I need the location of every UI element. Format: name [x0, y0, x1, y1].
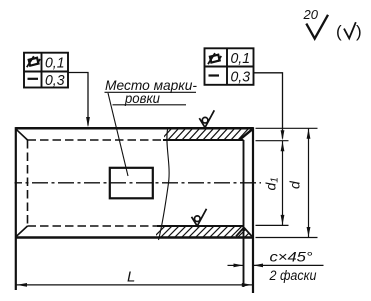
arrow: right frame leader down — [281, 130, 285, 140]
arrow: left frame leader down — [86, 117, 90, 127]
tolerance frame, right — [205, 48, 254, 85]
leader from note text to marking rectangle — [108, 93, 128, 176]
arrow: c left (pointing right) — [234, 264, 244, 268]
part outline: outer top line — [16, 127, 254, 130]
arrow: d top — [307, 129, 311, 139]
extension line, outer bottom (d) — [256, 237, 318, 239]
svg-text:0,3: 0,3 — [231, 69, 251, 86]
hatching, bottom wall — [154, 225, 257, 237]
surface finish symbol on bore bottom — [192, 209, 207, 226]
arrow: d1 top — [281, 141, 285, 151]
svg-text:0,1: 0,1 — [45, 55, 65, 72]
arrow: L left — [17, 283, 28, 287]
bore hidden dashed line, top — [28, 139, 165, 141]
tolerance symbol (straightness dash), right frame bottom cell — [209, 74, 220, 76]
svg-text:0,1: 0,1 — [231, 50, 251, 67]
extension line, bore top (d1) — [256, 140, 289, 142]
roughness in parentheses mark — [344, 22, 356, 38]
tolerance symbol (runout), left frame top cell — [27, 56, 40, 67]
part outline: outer bottom line — [16, 236, 254, 239]
dimension line L — [16, 284, 253, 286]
arrow: d1 bottom — [281, 215, 285, 225]
svg-text:L: L — [127, 269, 135, 286]
part outline: left end face (extends down as L extension line) — [15, 127, 17, 290]
note underline, line 1 — [105, 91, 197, 93]
bore line solid, bottom (sectioned part) — [157, 225, 244, 227]
dimension line d — [308, 128, 310, 237]
surface finish symbol on top wall — [199, 110, 214, 127]
right chamfer diagonal, top — [240, 130, 253, 140]
tolerance symbol (straightness dash), left frame bottom cell — [28, 78, 39, 80]
leader from left frame to part top face — [68, 73, 88, 126]
bore hidden dashed line, bottom — [28, 225, 159, 227]
marking place rectangle — [110, 168, 153, 199]
extension line, bore bottom (d1) — [256, 224, 289, 226]
svg-text:): ) — [356, 22, 362, 41]
svg-text:d: d — [287, 180, 303, 189]
arrow: c right (pointing left) — [253, 264, 263, 268]
svg-text:2 фаски: 2 фаски — [269, 268, 317, 283]
tolerance symbol (runout), right frame top cell — [208, 53, 221, 64]
extension line, outer top (d) — [256, 127, 318, 129]
hatch end stroke, bottom right — [236, 228, 244, 237]
svg-text:(: ( — [336, 22, 342, 41]
break (wavy) line — [159, 130, 170, 241]
bore line solid, top (sectioned part) — [163, 139, 244, 141]
chamfer dimension leader (c), right line / fraction bar — [253, 264, 324, 266]
note underline, line 2 — [113, 104, 187, 106]
hidden chamfer edge vertical, left end — [27, 140, 29, 226]
tolerance frame, left — [24, 53, 68, 88]
hatching, top wall — [160, 128, 256, 141]
arrowheads — [17, 117, 311, 287]
svg-text:0,3: 0,3 — [45, 72, 65, 89]
left chamfer diagonal, top — [16, 129, 28, 140]
chamfer dimension leader (c), left arrow line — [228, 264, 244, 266]
arrow: L right — [242, 283, 253, 287]
svg-text:c×45°: c×45° — [270, 249, 313, 265]
left chamfer diagonal, bottom — [16, 226, 28, 237]
svg-text:20: 20 — [303, 7, 319, 22]
roughness mark, top right corner — [306, 15, 328, 39]
centerline (dash-dot axis) — [15, 182, 262, 184]
svg-text:ровки: ровки — [124, 90, 160, 106]
arrow: d bottom — [307, 227, 311, 237]
part outline: right end face (extends down as extension line) — [252, 127, 254, 293]
right chamfer diagonal, bottom — [244, 228, 252, 237]
dimension line d1 — [282, 141, 284, 226]
right chamfer edge vertical — [243, 140, 245, 287]
leader from right frame to bore extension line — [254, 73, 283, 139]
